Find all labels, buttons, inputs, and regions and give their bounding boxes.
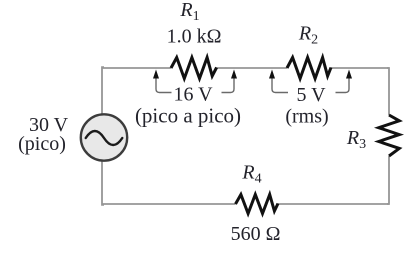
svg-text:1.0 kΩ: 1.0 kΩ — [167, 26, 222, 48]
wire top-middle segment — [217, 67, 288, 69]
wire left upper (source to top-left corner) — [102, 67, 104, 114]
wire bottom-right segment — [278, 203, 389, 205]
measurement bracket 5 V right arm with arrow — [336, 70, 353, 93]
svg-text:R3: R3 — [346, 127, 366, 152]
source VS (30 V pico) circle with sine — [81, 114, 127, 160]
svg-text:(pico a pico): (pico a pico) — [135, 104, 241, 128]
svg-text:R1: R1 — [179, 0, 199, 24]
resistor R2 zigzag — [287, 58, 331, 79]
wire left lower (source to bottom-left corner) — [102, 162, 104, 205]
svg-text:16 V: 16 V — [173, 84, 213, 106]
resistor R1 zigzag — [171, 58, 217, 79]
resistor R4 zigzag — [236, 195, 279, 214]
measurement bracket 5 V left arm with arrow — [269, 70, 288, 93]
svg-text:5 V: 5 V — [296, 84, 326, 106]
wire right upper (top-right corner to R3) — [387, 68, 389, 115]
resistor R3 zigzag (vertical) — [379, 115, 400, 156]
svg-text:(rms): (rms) — [285, 106, 328, 128]
svg-text:R2: R2 — [298, 23, 318, 48]
svg-text:R4: R4 — [241, 162, 261, 187]
wire right lower (R3 to bottom-right corner) — [387, 156, 389, 204]
wire bottom-left segment — [102, 203, 236, 205]
svg-text:(pico): (pico) — [18, 133, 66, 155]
svg-text:560 Ω: 560 Ω — [231, 223, 281, 245]
measurement bracket 16 V right arm with arrow — [222, 70, 238, 93]
wire top-left segment — [102, 67, 171, 69]
measurement bracket 16 V left arm with arrow — [153, 70, 172, 93]
wire top-right segment — [331, 67, 389, 69]
